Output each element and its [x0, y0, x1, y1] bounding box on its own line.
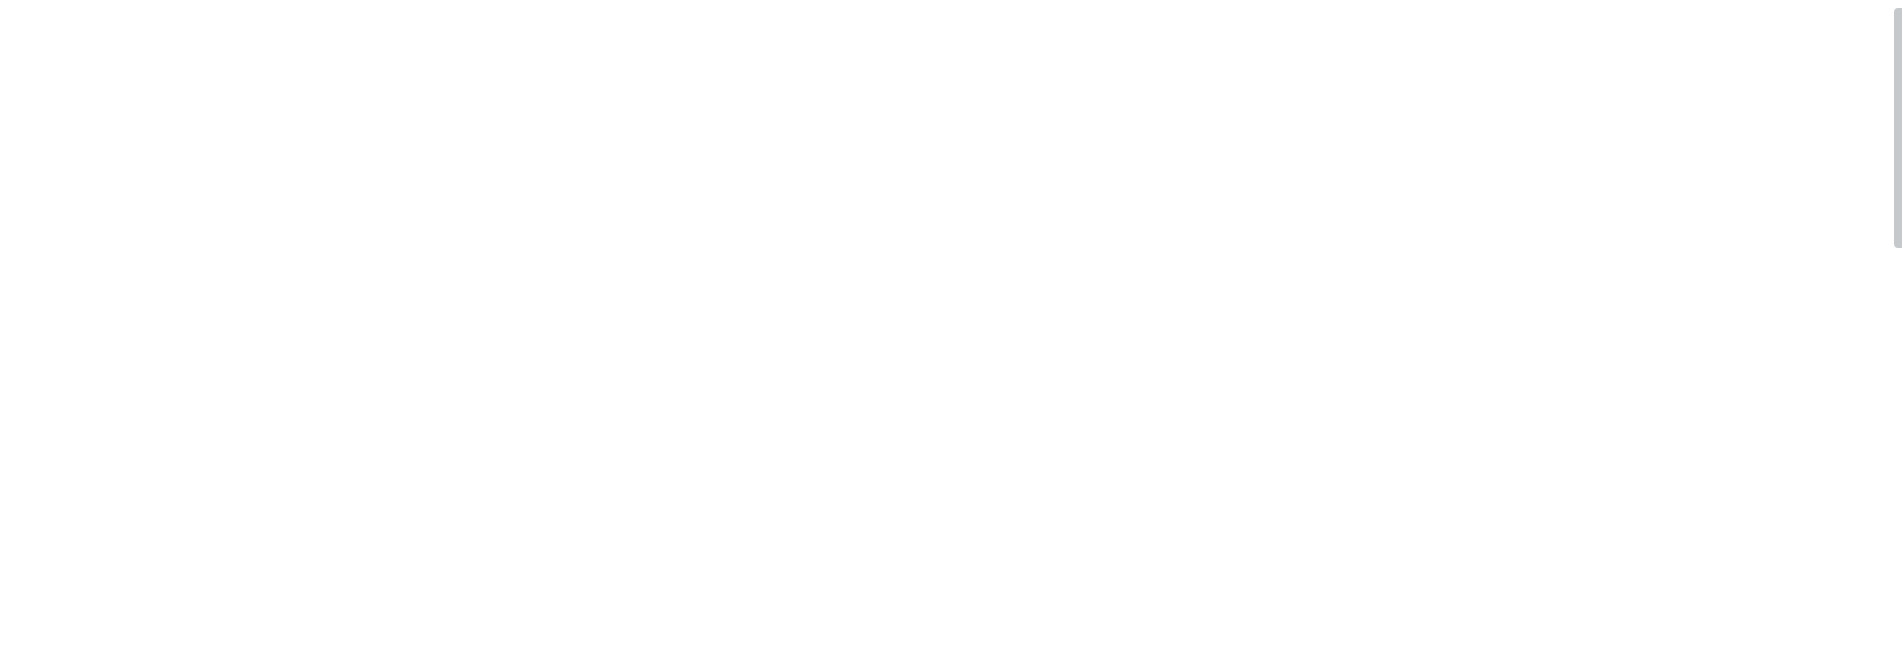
scrollbar thumb — [1894, 8, 1902, 248]
